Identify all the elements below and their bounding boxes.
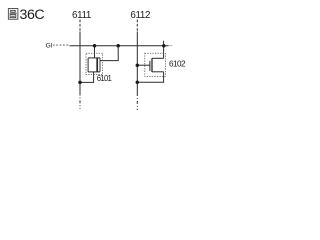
right bar: [99, 58, 101, 72]
wire GI rail: [69, 45, 168, 47]
channel bar: [151, 58, 153, 72]
svg-text:6101: 6101: [97, 74, 112, 83]
junction dot gate 6101 on rail: [93, 44, 97, 48]
transistor Q 6101: [80, 46, 118, 83]
drain lead up to rail with stub: [163, 41, 165, 59]
gate bar (top, horizontal): [88, 57, 100, 59]
wire 6111 solid segment: [79, 32, 81, 93]
svg-text:36C: 36C: [20, 7, 45, 23]
source route to wire 6111: [80, 72, 94, 83]
junction dot source 6102 on wire 6112: [136, 81, 140, 85]
wire 6111 dashed top segment: [79, 20, 81, 32]
dashed outline box 6101: [86, 53, 103, 74]
gate lead from wire 6112: [137, 64, 150, 66]
wire 6112 dashed bottom segment: [136, 93, 138, 110]
channel bar (thick, vertical): [96, 58, 98, 72]
drain arm: [152, 57, 164, 59]
svg-text:6112: 6112: [130, 10, 150, 21]
svg-text:6102: 6102: [169, 59, 186, 68]
junction dot drain 6102 on rail: [162, 44, 166, 48]
wire GI dashed lead-in: [53, 44, 70, 46]
transistor Q 6102: [137, 41, 165, 83]
svg-text:GI: GI: [46, 43, 53, 50]
junction dot drain 6101 on rail: [116, 44, 120, 48]
dashed outline box 6102: [145, 53, 166, 76]
gate bar: [149, 61, 151, 71]
gate lead from rail: [94, 46, 96, 58]
source route to wire 6112: [137, 72, 163, 83]
junction dot source 6101 on wire 6111: [78, 81, 82, 85]
wire GI rail fade tail: [169, 45, 173, 47]
wire 6111 dashed bottom segment: [79, 93, 81, 110]
drain route to rail: [100, 46, 118, 61]
bottom bar: [88, 71, 100, 73]
junction dot gate 6102 on wire 6112: [136, 63, 140, 67]
figure title 圖 glyph (drawn): [8, 9, 18, 20]
left bar: [87, 58, 89, 72]
svg-text:6111: 6111: [72, 10, 91, 21]
wire 6112 solid segment: [136, 32, 138, 94]
source arm: [152, 71, 164, 73]
wire 6112 dashed top segment: [136, 20, 138, 32]
